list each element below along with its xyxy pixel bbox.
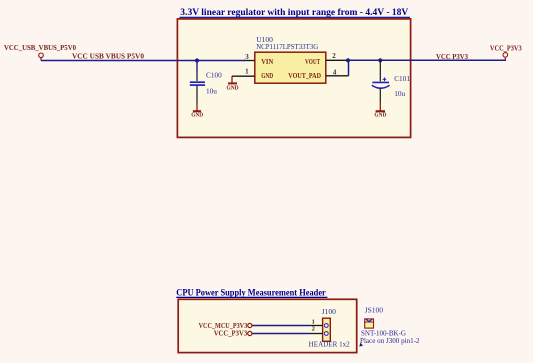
svg-text:VCC_MCU_P3V3: VCC_MCU_P3V3 bbox=[199, 322, 248, 330]
pin 2 (J100) bbox=[310, 326, 323, 334]
svg-text:1: 1 bbox=[312, 319, 315, 326]
ground (U100 pin 1) bbox=[227, 76, 239, 91]
svg-text:GND: GND bbox=[374, 112, 386, 118]
capacitor C101 (polarized) bbox=[372, 60, 390, 101]
svg-text:3.3V linear regulator with inp: 3.3V linear regulator with input range f… bbox=[180, 8, 408, 18]
svg-text:2: 2 bbox=[312, 326, 315, 333]
svg-text:GND: GND bbox=[191, 112, 203, 118]
wire net VCC_USB_VBUS_P5V0 bbox=[41, 60, 245, 62]
junction node VOUT bbox=[346, 58, 350, 62]
ground (C100) bbox=[191, 103, 203, 118]
svg-text:VCC_P3V3: VCC_P3V3 bbox=[490, 45, 522, 53]
svg-text:C101: C101 bbox=[394, 74, 410, 83]
off-page connector VCC_USB_VBUS_P5V0 bbox=[4, 44, 76, 61]
wire pin4 to output net bbox=[348, 60, 350, 76]
pin 1 (J100) bbox=[310, 319, 323, 326]
svg-text:GND: GND bbox=[261, 72, 273, 80]
pin 1 (GND) bbox=[232, 68, 255, 77]
off-page connector VCC_P3V3 (bottom) bbox=[214, 330, 252, 338]
svg-text:J100: J100 bbox=[322, 307, 336, 316]
net label VCC_P3V3 bbox=[436, 53, 468, 61]
svg-text:HEADER 1x2: HEADER 1x2 bbox=[309, 341, 351, 349]
wire net VCC_MCU_P3V3 bbox=[252, 325, 310, 327]
ground (C101) bbox=[374, 102, 386, 119]
svg-text:VOUT: VOUT bbox=[305, 58, 320, 66]
svg-text:3: 3 bbox=[245, 53, 249, 61]
svg-text:2: 2 bbox=[332, 52, 336, 60]
svg-text:10u: 10u bbox=[206, 87, 217, 96]
net label VCC_USB_VBUS_P5V0 bbox=[72, 52, 145, 60]
off-page connector VCC_MCU_P3V3 bbox=[199, 322, 252, 330]
pin 2 (VOUT) bbox=[326, 52, 348, 60]
wire net VCC_P3V3 bbox=[348, 59, 506, 61]
regulator U100 NCP1117LPST33T3G bbox=[255, 35, 326, 83]
pin 4 (VOUT_PAD) bbox=[326, 69, 349, 77]
jumper shunt JS100 bbox=[364, 306, 383, 329]
pin 3 (VIN) bbox=[244, 53, 255, 61]
junction node C100/input bbox=[195, 58, 199, 62]
svg-text:VCC P3V3: VCC P3V3 bbox=[436, 53, 468, 61]
svg-text:NCP1117LPST33T3G: NCP1117LPST33T3G bbox=[256, 42, 319, 51]
junction node C101 bbox=[378, 58, 382, 62]
svg-text:1: 1 bbox=[245, 68, 249, 76]
svg-text:VCC USB VBUS P5V0: VCC USB VBUS P5V0 bbox=[72, 52, 145, 60]
svg-text:VCC_USB_VBUS_P5V0: VCC_USB_VBUS_P5V0 bbox=[4, 44, 76, 52]
svg-text:VOUT_PAD: VOUT_PAD bbox=[288, 72, 321, 80]
svg-text:Place on J300 pin1-2: Place on J300 pin1-2 bbox=[360, 336, 420, 345]
wire net VCC_P3V3 (bottom) bbox=[252, 333, 310, 335]
svg-text:VCC_P3V3: VCC_P3V3 bbox=[214, 330, 248, 338]
svg-text:C100: C100 bbox=[206, 71, 222, 80]
regulator block border box bbox=[177, 19, 410, 137]
measurement header block border box bbox=[178, 299, 357, 352]
svg-text:VIN: VIN bbox=[261, 58, 273, 66]
capacitor C100 bbox=[190, 61, 205, 104]
connector J100 HEADER 1x2 bbox=[309, 307, 351, 349]
title regulator block bbox=[180, 8, 411, 18]
svg-text:10u: 10u bbox=[394, 89, 405, 98]
value label C101 10u bbox=[394, 74, 410, 98]
svg-text:JS100: JS100 bbox=[365, 306, 384, 315]
svg-text:4: 4 bbox=[333, 69, 337, 77]
off-page connector VCC_P3V3 bbox=[490, 45, 522, 61]
cursor mark bbox=[359, 343, 363, 347]
value label C100 10u bbox=[206, 71, 222, 96]
svg-text:GND: GND bbox=[227, 85, 239, 91]
title measurement header block bbox=[176, 289, 327, 299]
value label JS100 SNT-100-BK-G bbox=[360, 329, 420, 345]
